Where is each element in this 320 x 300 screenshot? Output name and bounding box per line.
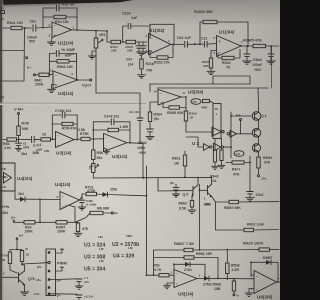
svg-text:40M: 40M bbox=[201, 106, 207, 110]
wire to op-amp bbox=[36, 27, 52, 28]
svg-text:4b: 4b bbox=[215, 107, 219, 111]
labels M+9v bbox=[1, 205, 10, 215]
vertical x199 down bbox=[199, 185, 201, 251]
capacitor 47b2 to ground bbox=[246, 192, 264, 201]
node fb U3a bbox=[49, 54, 51, 76]
resistor M 49K lower with terminal bbox=[75, 207, 118, 223]
wire fb down U3c bbox=[129, 122, 131, 143]
net oval V6- bbox=[191, 99, 201, 105]
svg-text:1b: 1b bbox=[1, 6, 5, 10]
wire down to cap bbox=[249, 156, 251, 191]
resistor 2.9b R75K bbox=[78, 128, 93, 141]
svg-text:C+M4 104: C+M4 104 bbox=[55, 109, 71, 113]
diode D9M7 feedback U6 bbox=[250, 256, 278, 282]
svg-text:LM: LM bbox=[128, 246, 133, 250]
svg-text:R9b1 14K: R9b1 14K bbox=[57, 65, 73, 69]
svg-text:2: 2 bbox=[146, 34, 148, 38]
capacitor 4.7uF feedback bbox=[43, 3, 77, 11]
capacitor C+M4 104 feedback bbox=[52, 109, 77, 118]
ground stub pot bbox=[89, 51, 97, 59]
svg-text:47K: 47K bbox=[82, 227, 89, 231]
node bbox=[142, 177, 144, 179]
svg-text:1Mb: 1Mb bbox=[32, 151, 39, 155]
resistor R7b1 470K bbox=[85, 186, 103, 196]
IC box left bbox=[0, 163, 15, 191]
wire output stage3 bbox=[240, 45, 253, 47]
svg-text:R21b: R21b bbox=[146, 62, 155, 66]
svg-text:(8v: (8v bbox=[37, 265, 42, 269]
svg-text:V|ref: V|ref bbox=[82, 83, 92, 88]
terminal V- bbox=[27, 66, 39, 76]
svg-text:U5(3/4): U5(3/4) bbox=[188, 90, 204, 95]
svg-text:19K: 19K bbox=[111, 49, 117, 53]
svg-text:18K: 18K bbox=[127, 49, 133, 53]
diode 27b1 feedback bbox=[184, 262, 205, 278]
svg-text:11: 11 bbox=[50, 69, 54, 73]
svg-text:Cb 101: Cb 101 bbox=[129, 110, 139, 114]
tall box network bbox=[213, 104, 221, 139]
capacitor c5 104 bbox=[56, 294, 94, 300]
pin V+ bbox=[36, 278, 61, 283]
resistor R4M1 10K bbox=[7, 21, 23, 30]
svg-text:C3+8 101: C3+8 101 bbox=[104, 115, 119, 119]
svg-text:U1(3/4): U1(3/4) bbox=[219, 30, 235, 35]
node fb stage2 bbox=[149, 24, 174, 37]
svg-text:09K: 09K bbox=[22, 127, 29, 131]
resistor R21b 70K to ground bbox=[140, 51, 154, 75]
wire + input from rail bbox=[68, 205, 75, 222]
pin hook 2 bbox=[37, 265, 64, 272]
rail y88 bbox=[157, 87, 268, 89]
wire inv out to Q2 base bbox=[237, 133, 253, 135]
transistor Q2 bbox=[252, 129, 261, 138]
inverter U2c pair lower bbox=[204, 144, 213, 151]
svg-text:7: 7 bbox=[251, 287, 253, 291]
rail y257 + resistor 19R bbox=[154, 252, 219, 259]
resistor R8b1 1M vertical bbox=[172, 151, 187, 178]
terminal VREF bbox=[77, 79, 92, 88]
wire Q7a collector bbox=[197, 177, 199, 185]
input node + resistor R5b 9.7K bbox=[146, 264, 174, 277]
svg-text:−: − bbox=[55, 74, 57, 78]
svg-text:LM: LM bbox=[99, 259, 104, 263]
terminal V+- below R9M1 bbox=[258, 175, 268, 181]
node to y42 rail bbox=[106, 30, 111, 42]
box corner top bbox=[213, 76, 250, 84]
svg-text:R1b 13k: R1b 13k bbox=[55, 20, 68, 24]
ground op-amp1 bbox=[48, 35, 56, 45]
svg-text:200K: 200K bbox=[35, 83, 44, 87]
svg-text:U1(1/4): U1(1/4) bbox=[58, 41, 74, 46]
resistor R8bC 8.5K emitter bbox=[179, 196, 197, 213]
svg-text:V+: V+ bbox=[114, 212, 118, 216]
svg-text:U5(1/4): U5(1/4) bbox=[178, 292, 194, 297]
op-amp U4(1/4) big bbox=[57, 192, 80, 210]
pot below bbox=[90, 164, 99, 179]
svg-text:b): b) bbox=[1, 95, 4, 99]
wire output U3c bbox=[127, 142, 143, 144]
transistor Q1 bbox=[252, 112, 266, 121]
svg-text:R3b4: R3b4 bbox=[154, 113, 163, 117]
capacitor C3M A-100uF bbox=[78, 197, 96, 210]
svg-text:100K: 100K bbox=[57, 230, 66, 234]
svg-text:V−: V− bbox=[57, 294, 61, 298]
svg-text:1: 1 bbox=[199, 274, 201, 278]
svg-text:Cb1: Cb1 bbox=[30, 20, 37, 24]
svg-text:+ E: + E bbox=[62, 205, 67, 209]
resistor R7M 47K feedback bbox=[52, 122, 77, 130]
svg-text:~50V: ~50V bbox=[253, 68, 262, 72]
svg-text:1M: 1M bbox=[174, 162, 179, 166]
node collector bbox=[21, 263, 48, 265]
node feedback bbox=[42, 9, 44, 29]
resistor 14M 43K to below bbox=[92, 139, 104, 164]
dark table strip top-left bbox=[0, 0, 133, 5]
svg-text:R75K: R75K bbox=[80, 132, 89, 136]
wire input bbox=[3, 27, 12, 29]
svg-text:U4 = 339: U4 = 339 bbox=[113, 254, 134, 260]
rail top y84 bbox=[150, 83, 250, 85]
vertical joining rails bbox=[215, 202, 217, 230]
svg-text:V6-: V6- bbox=[193, 100, 198, 104]
svg-text:53x: 53x bbox=[97, 156, 103, 160]
transistor Q78 bbox=[3, 265, 35, 285]
resistor R1M8 13k feedback bbox=[43, 15, 77, 23]
svg-text:20K: 20K bbox=[203, 64, 209, 68]
svg-text:x: x bbox=[216, 112, 218, 116]
capacitor 100uF 50V to ground bbox=[252, 45, 275, 72]
transistor Q3 bbox=[252, 144, 260, 152]
rail y250 bbox=[154, 241, 195, 250]
svg-text:−: − bbox=[219, 51, 221, 55]
inverter U2d bbox=[214, 143, 224, 151]
svg-text:C3b2: C3b2 bbox=[138, 141, 147, 145]
resistor R9b1 14K feedback bbox=[49, 60, 76, 69]
pin V- bbox=[33, 292, 61, 298]
svg-text:12V: 12V bbox=[65, 54, 72, 58]
vertical left x153 bbox=[153, 250, 155, 275]
svg-text:R9M( 19R: R9M( 19R bbox=[196, 252, 212, 256]
svg-text:1M4: 1M4 bbox=[1, 211, 8, 215]
long wire vR1 down to VREF rail bbox=[95, 48, 97, 93]
resistor R3M7 100K bbox=[56, 221, 78, 234]
svg-text:−: − bbox=[57, 134, 59, 138]
svg-text:V M+: V M+ bbox=[14, 107, 24, 112]
svg-text:+: + bbox=[160, 101, 162, 105]
svg-text:1LK: 1LK bbox=[1, 185, 8, 189]
svg-text:A-100b: A-100b bbox=[86, 203, 96, 207]
op-amp U3(1/4) vref bbox=[50, 51, 78, 96]
resistor R2b below to ground bbox=[202, 51, 217, 75]
svg-text:LM: LM bbox=[98, 235, 103, 239]
svg-text:~50V: ~50V bbox=[138, 151, 147, 155]
terminal V+ bottom rail bbox=[11, 216, 24, 222]
wire fb down bbox=[76, 115, 78, 140]
output diode 27M1 bbox=[197, 276, 218, 286]
svg-text:1: 1 bbox=[3, 272, 5, 276]
terminal V M+ bbox=[14, 107, 24, 127]
svg-text:V+: V+ bbox=[19, 234, 23, 238]
svg-text:-17b: -17b bbox=[33, 292, 39, 296]
svg-text:R5b: R5b bbox=[153, 264, 160, 268]
svg-text:10b: 10b bbox=[44, 149, 49, 153]
svg-text:R7b8: R7b8 bbox=[1, 254, 9, 258]
wire feedback down bbox=[76, 8, 78, 30]
svg-text:47K: 47K bbox=[264, 161, 271, 165]
pin PWM circle bbox=[48, 261, 68, 266]
svg-text:R9M1: R9M1 bbox=[263, 156, 272, 160]
svg-text:+: + bbox=[57, 143, 59, 147]
capacitor C1b1 series bbox=[32, 136, 43, 152]
rail y178 bbox=[93, 176, 211, 179]
resistor 1M series bbox=[41, 133, 56, 142]
ground U3c bbox=[104, 148, 110, 155]
inverter U2a bbox=[212, 127, 224, 136]
op-amp U1(1/4) bbox=[49, 22, 75, 46]
capacitor c4 104 bbox=[56, 276, 90, 289]
resistor R3M5 18K bbox=[126, 40, 136, 52]
svg-text:R9b6: R9b6 bbox=[213, 283, 222, 287]
svg-text:5: 5 bbox=[214, 36, 216, 40]
wire Q1 emitter down bbox=[258, 120, 260, 129]
svg-text:10K: 10K bbox=[1, 167, 7, 171]
svg-text:200K: 200K bbox=[25, 230, 34, 234]
svg-text:R7M 47K: R7M 47K bbox=[62, 127, 77, 131]
wire minus up bbox=[251, 274, 254, 276]
op-amp U5(1/4) bbox=[171, 270, 201, 297]
wire into inverters lower bbox=[186, 137, 204, 147]
resistor R2b2 27K below bbox=[149, 45, 174, 65]
svg-text:R4b1 10K: R4b1 10K bbox=[7, 21, 23, 25]
resistor 2 to ground bbox=[210, 139, 225, 184]
svg-text:R7M: R7M bbox=[22, 122, 29, 126]
diode 2b1 bbox=[18, 192, 25, 202]
wire node down to bottom rail bbox=[39, 199, 41, 222]
wire U6 output bbox=[277, 281, 281, 283]
svg-text:C9b4: C9b4 bbox=[253, 58, 262, 62]
svg-text:18R: 18R bbox=[214, 287, 221, 291]
wire Q2 emitter down bbox=[258, 137, 260, 144]
svg-text:47b2: 47b2 bbox=[256, 193, 264, 197]
svg-text:U2 = 1570b: U2 = 1570b bbox=[112, 242, 139, 248]
svg-text:TBC: TBC bbox=[126, 234, 133, 238]
terminal V+- bbox=[236, 114, 242, 134]
node + cap c1 104 to ground bbox=[15, 139, 29, 152]
net oval V-6 lower bbox=[234, 151, 244, 157]
vertical x218 bbox=[217, 258, 219, 280]
wire into U5a bbox=[149, 84, 151, 92]
feedback resistor R3M3 93K bbox=[150, 102, 186, 115]
resistor R33 200K bbox=[24, 221, 56, 234]
svg-text:9.7K: 9.7K bbox=[154, 268, 162, 272]
svg-text:Q78: Q78 bbox=[28, 277, 35, 281]
svg-text:+: + bbox=[151, 50, 153, 54]
capacitor C3b2 100uF 50V to ground bbox=[137, 129, 154, 155]
op-amp U3(1/4) b bbox=[56, 132, 75, 156]
svg-text:−: − bbox=[176, 272, 178, 276]
svg-text:U4(1/4): U4(1/4) bbox=[55, 182, 71, 187]
wire output U5a bbox=[181, 96, 187, 107]
svg-text:100uF: 100uF bbox=[252, 63, 263, 67]
resistor pair to ground left bbox=[212, 139, 219, 170]
svg-text:1A: 1A bbox=[212, 179, 217, 183]
ground Q78 bbox=[21, 285, 29, 296]
rail B y230 + resistor R9b1 1mK bbox=[216, 223, 280, 232]
wire output bbox=[72, 29, 108, 31]
svg-text:1uF: 1uF bbox=[131, 16, 138, 20]
svg-text:V-: V- bbox=[237, 294, 240, 298]
node U3c input bbox=[92, 122, 103, 140]
ground U3a bbox=[48, 85, 56, 93]
wire bbox=[136, 41, 148, 43]
svg-text:4: 4 bbox=[71, 72, 73, 76]
svg-text:4.b7 uF: 4.b7 uF bbox=[62, 3, 75, 7]
svg-text:R5b8: R5b8 bbox=[231, 264, 240, 268]
op-amp small inside box bbox=[4, 173, 12, 184]
svg-text:V+: V+ bbox=[11, 216, 15, 220]
svg-text:104: 104 bbox=[23, 146, 29, 150]
long rail VREF route right bbox=[96, 93, 143, 143]
svg-text:R2b4: R2b4 bbox=[222, 61, 231, 65]
capacitor C3+8 101 feedback U3c bbox=[93, 115, 130, 125]
transistor Q7a bbox=[183, 185, 199, 197]
resistor R3M8 40M bbox=[201, 99, 213, 109]
connector box bbox=[46, 249, 56, 296]
ground U6 bbox=[246, 289, 255, 297]
pin 5 bbox=[48, 286, 50, 288]
ground U5b bbox=[164, 283, 175, 289]
wire minus node down bbox=[173, 264, 175, 271]
resistor R6b 4.9K bbox=[3, 138, 31, 150]
svg-text:U5 = 304: U5 = 304 bbox=[84, 267, 105, 273]
resistor R9b6 18R to V- bbox=[213, 279, 240, 298]
svg-text:4F: 4F bbox=[1, 17, 5, 21]
wire fb right down bbox=[76, 54, 78, 81]
wire Q1 collector to rail bbox=[257, 88, 260, 112]
svg-text:V+-: V+- bbox=[236, 114, 242, 118]
node fb U3b bbox=[51, 115, 53, 140]
wire fb down to output bbox=[173, 24, 175, 44]
wire U3c out down route bbox=[142, 143, 144, 177]
capacitor E to ground bbox=[170, 181, 180, 197]
pot vR1 bbox=[94, 30, 105, 48]
svg-text:47K: 47K bbox=[233, 173, 240, 177]
resistor R9+7 47K bbox=[226, 161, 250, 177]
svg-text:7: 7 bbox=[278, 277, 280, 281]
wire Q1 base bbox=[231, 115, 253, 117]
wire from box to diode bbox=[15, 185, 20, 199]
svg-text:Mb 68K: Mb 68K bbox=[97, 207, 110, 211]
svg-text:R2M9 45K: R2M9 45K bbox=[194, 9, 213, 14]
op-amp U1(3/4) stage3 bbox=[214, 30, 244, 57]
capacitor C1b1 100uF 50V bbox=[27, 20, 38, 44]
svg-text:25/b: 25/b bbox=[110, 188, 117, 192]
svg-text:−: − bbox=[151, 37, 153, 41]
resistor R9M1 47K bbox=[257, 152, 273, 175]
svg-text:−: − bbox=[54, 24, 56, 28]
svg-text:C21: C21 bbox=[201, 37, 207, 41]
svg-text:27b1: 27b1 bbox=[184, 268, 192, 272]
vertical x272 bbox=[271, 46, 273, 88]
feedback resistor R2M9 45K bbox=[194, 9, 248, 46]
svg-text:(M: (M bbox=[170, 181, 174, 185]
svg-text:470K: 470K bbox=[87, 189, 96, 193]
svg-text:6: 6 bbox=[214, 51, 216, 55]
marks above IC box bbox=[21, 149, 49, 156]
svg-text:48b: 48b bbox=[204, 202, 209, 206]
resistor R3M4 19K bbox=[110, 40, 121, 52]
svg-text:R8b1: R8b1 bbox=[172, 157, 181, 161]
capacitor C1b4 1uF bbox=[122, 12, 150, 29]
svg-text:LM: LM bbox=[99, 247, 104, 251]
wire into U6 bbox=[218, 278, 254, 280]
svg-text:R9o5 180K: R9o5 180K bbox=[243, 241, 264, 246]
node V- branch bbox=[0, 27, 28, 81]
svg-text:R8M7 /MK: R8M7 /MK bbox=[224, 206, 241, 210]
svg-text:18+: 18+ bbox=[36, 278, 41, 282]
inverter U2b bbox=[227, 130, 236, 137]
capacitor C9b4 to ground bbox=[243, 45, 251, 64]
svg-text:−: − bbox=[256, 275, 258, 279]
svg-text:U 2: U 2 bbox=[192, 141, 200, 146]
svg-text:4: 4 bbox=[55, 51, 57, 55]
svg-text:U1(3/4): U1(3/4) bbox=[149, 28, 165, 33]
op-amp U6 bbox=[251, 271, 280, 300]
svg-text:D9M7: D9M7 bbox=[263, 256, 272, 260]
wire inv2 output bbox=[224, 146, 231, 148]
svg-text:1: 1 bbox=[204, 197, 206, 201]
wire to inverter1 bbox=[186, 131, 212, 133]
diode 25b bbox=[103, 188, 118, 197]
wire corner to Q7 base bbox=[158, 178, 193, 191]
svg-text:2b4: 2b4 bbox=[21, 152, 27, 156]
svg-text:27M1: 27M1 bbox=[203, 283, 212, 287]
svg-text:U6(3/4): U6(3/4) bbox=[257, 295, 273, 300]
ground R21b bbox=[138, 75, 146, 78]
svg-text:2.2R: 2.2R bbox=[232, 268, 240, 272]
svg-text:c5,10+: c5,10+ bbox=[84, 295, 94, 299]
svg-text:−: − bbox=[160, 92, 162, 96]
svg-text:3: 3 bbox=[49, 34, 51, 38]
svg-text:100b: 100b bbox=[137, 146, 145, 150]
svg-text:R8M7 7.5K: R8M7 7.5K bbox=[174, 241, 194, 246]
svg-text:+: + bbox=[55, 84, 57, 88]
svg-text:V−: V− bbox=[27, 66, 31, 70]
svg-text:R5b: R5b bbox=[97, 151, 104, 155]
svg-text:C1b4: C1b4 bbox=[122, 12, 131, 16]
wire output stage2 bbox=[171, 44, 184, 46]
op-amp U5(3/4) bbox=[154, 90, 204, 106]
svg-text:−: − bbox=[106, 136, 108, 140]
svg-text:−: − bbox=[62, 195, 64, 199]
vertical rail x231 bbox=[230, 112, 232, 158]
svg-text:PWM: PWM bbox=[57, 261, 67, 266]
op-amp U1(3/4) stage2 bbox=[146, 28, 172, 55]
svg-text:R3M3 93K: R3M3 93K bbox=[167, 111, 184, 115]
resistor R3M4 vertical bbox=[148, 112, 162, 129]
dark left edge strip bbox=[0, 0, 2, 300]
svg-text:U4(3/4): U4(3/4) bbox=[17, 176, 33, 181]
svg-text:U3(1/4): U3(1/4) bbox=[112, 154, 128, 159]
wire output U4 bbox=[80, 194, 87, 200]
svg-text:R9b1 1mK: R9b1 1mK bbox=[247, 223, 265, 227]
svg-text:7K: 7K bbox=[226, 66, 231, 70]
svg-text:R2b2 27K: R2b2 27K bbox=[154, 61, 170, 65]
svg-text:Q.9: Q.9 bbox=[183, 193, 189, 197]
op-amp U3(1/4) c bbox=[104, 134, 128, 160]
wire output U3b bbox=[74, 139, 81, 141]
wire diode out right bbox=[108, 195, 147, 196]
